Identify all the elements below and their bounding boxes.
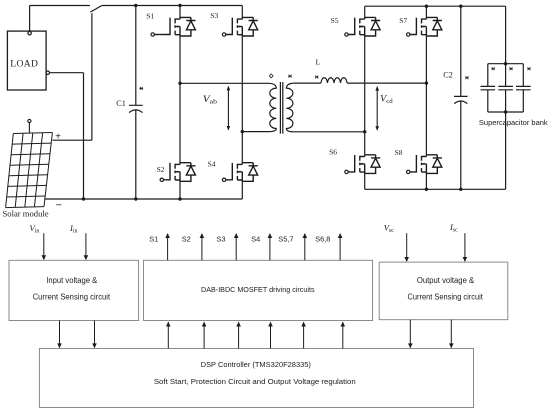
arrow gate S5,7 xyxy=(304,234,306,260)
polarity mark secondary xyxy=(288,75,292,78)
box DSP controller xyxy=(39,349,473,408)
polarity mark inductor xyxy=(315,76,319,79)
box Input sensing xyxy=(9,260,139,320)
transformer secondary winding xyxy=(286,83,293,132)
svg-text:Output voltage &: Output voltage & xyxy=(417,276,475,285)
junction S8 source bottom rail xyxy=(425,188,428,191)
node d junction xyxy=(363,130,366,133)
node a wire xyxy=(180,82,269,84)
junction C1 bottom rail xyxy=(134,197,137,200)
svg-text:Current Sensing circuit: Current Sensing circuit xyxy=(33,293,111,302)
arrow gate S1 xyxy=(167,234,169,260)
wire S1-S2 leg xyxy=(179,36,181,163)
transistor S5 drain wire xyxy=(364,6,366,17)
node b wire xyxy=(242,131,269,133)
arrow output sense to DSP 2 xyxy=(450,320,452,348)
polarity mark C1 xyxy=(139,87,143,90)
svg-text:Solar module: Solar module xyxy=(3,209,49,219)
transformer core xyxy=(280,82,282,134)
arrow DSP to driver 3 xyxy=(238,322,240,348)
svg-text:S2: S2 xyxy=(157,165,165,174)
solar module terminal xyxy=(28,119,31,133)
arrow gate S2 xyxy=(201,234,203,260)
svg-text:LOAD: LOAD xyxy=(10,60,38,70)
wire S4 source xyxy=(241,181,243,199)
junction load return bottom rail xyxy=(82,197,85,200)
Vab arrow xyxy=(227,86,231,131)
box Output sensing xyxy=(379,262,508,320)
LOAD box xyxy=(7,31,46,90)
box DAB-IBDC driving xyxy=(144,260,373,320)
svg-text:Supercapacitor bank: Supercapacitor bank xyxy=(479,118,548,127)
supercap bank top wire xyxy=(488,63,524,65)
node c junction xyxy=(425,81,428,84)
wire top rail to bridge xyxy=(102,5,243,7)
svg-text:DAB-IBDC MOSFET driving circui: DAB-IBDC MOSFET driving circuits xyxy=(201,285,315,294)
node b junction xyxy=(241,130,244,133)
arrow DSP to driver 6 xyxy=(342,322,344,348)
polarity mark supercap 3 xyxy=(527,67,531,70)
transistor S3 drain wire xyxy=(241,6,243,18)
svg-text:S5,7: S5,7 xyxy=(278,235,293,244)
transistor S3 xyxy=(222,17,257,36)
wire secondary top to inductor xyxy=(294,82,321,84)
node a junction xyxy=(178,82,181,85)
wire S2 source xyxy=(179,181,181,199)
arrow input sense to DSP 1 xyxy=(59,321,61,348)
transistor S2 xyxy=(160,163,195,182)
wire S7-S8 leg xyxy=(425,36,427,155)
wire S5-S6 leg xyxy=(364,36,366,155)
wire S8 source xyxy=(425,173,427,189)
svg-text:S8: S8 xyxy=(395,148,403,157)
bottom rail left bridge xyxy=(45,198,243,200)
svg-text:S6: S6 xyxy=(329,148,337,157)
svg-text:S1: S1 xyxy=(149,235,158,244)
arrow DSP to driver 4 xyxy=(270,322,272,348)
polarity mark supercap 1 xyxy=(491,67,495,70)
arrow input sense to DSP 2 xyxy=(94,321,96,348)
supercap cap 3 xyxy=(516,64,531,112)
transformer primary winding xyxy=(269,83,276,131)
svg-text:Soft Start, Protection Circuit: Soft Start, Protection Circuit and Outpu… xyxy=(154,377,356,386)
svg-text:S4: S4 xyxy=(251,235,260,244)
svg-text:S1: S1 xyxy=(146,11,154,20)
inductor L xyxy=(321,78,347,83)
arrow Vin into input box xyxy=(42,233,468,348)
arrow DSP to driver 5 xyxy=(303,322,305,348)
junction S1 drain rail xyxy=(178,4,181,7)
arrow gate S4 xyxy=(269,234,271,260)
svg-text:S6,8: S6,8 xyxy=(315,235,330,244)
arrow DSP to driver 2 xyxy=(203,322,205,348)
svg-text:–: – xyxy=(55,199,62,210)
supercap cap 1 xyxy=(481,64,496,112)
svg-text:C1: C1 xyxy=(116,99,126,108)
solar module panel xyxy=(6,133,53,208)
polarity mark C2 xyxy=(465,76,469,79)
junction supercap bank top xyxy=(504,62,507,65)
svg-text:S4: S4 xyxy=(208,160,216,169)
svg-text:DSP Controller (TMS320F28335): DSP Controller (TMS320F28335) xyxy=(201,360,311,369)
supercap right vertical xyxy=(505,6,507,189)
svg-text:S7: S7 xyxy=(399,16,407,25)
supercap cap 2 plates xyxy=(498,86,513,89)
wire inductor to node c xyxy=(347,82,426,84)
junction S7 drain rail xyxy=(425,5,428,8)
svg-text:S2: S2 xyxy=(182,235,191,244)
Vcd arrow xyxy=(375,86,379,131)
wire LOAD right to bottom rail xyxy=(50,73,84,199)
svg-text:L: L xyxy=(316,57,321,66)
junction C1 top rail xyxy=(134,4,137,7)
solar plus wire xyxy=(53,139,92,141)
wire top rail left of switch xyxy=(30,5,90,7)
wire S3-S4 leg xyxy=(241,36,243,163)
svg-text:S3: S3 xyxy=(210,11,218,20)
transistor S4 xyxy=(222,163,257,182)
junction supercap bank bottom xyxy=(504,110,507,113)
supercap bank bottom wire xyxy=(488,111,524,113)
svg-text:+: + xyxy=(55,131,61,142)
wire S6 source xyxy=(364,173,366,189)
transistor S7 xyxy=(407,17,442,36)
junction S2 source bottom rail xyxy=(178,197,181,200)
svg-text:Input voltage &: Input voltage & xyxy=(46,276,98,285)
bottom rail right bridge xyxy=(365,188,506,190)
arrow Vsc into output box xyxy=(406,233,408,261)
arrow DSP to driver 1 xyxy=(167,322,169,348)
capacitor C1 xyxy=(129,6,143,200)
transistor S5 xyxy=(345,17,380,36)
transistor S8 xyxy=(407,155,442,174)
LOAD top terminal xyxy=(28,32,31,35)
LOAD right terminal xyxy=(46,71,49,74)
arrow output sense to DSP 1 xyxy=(409,320,411,348)
wire LOAD top to rail xyxy=(29,6,31,32)
polarity mark supercap 2 xyxy=(509,67,513,70)
junction C2 bottom rail xyxy=(459,188,462,191)
arrow Isc into output box xyxy=(464,233,466,261)
svg-text:S3: S3 xyxy=(217,235,226,244)
wire switch pole down xyxy=(91,13,93,140)
top rail right bridge xyxy=(365,5,506,7)
junction C2 top rail xyxy=(459,5,462,8)
switch blade xyxy=(90,6,101,13)
transistor S6 xyxy=(345,155,380,174)
arrow gate S3 xyxy=(235,234,237,260)
transistor S7 drain wire xyxy=(425,6,427,17)
transistor S1 xyxy=(151,17,196,36)
svg-text:S5: S5 xyxy=(331,16,339,25)
svg-text:C2: C2 xyxy=(443,71,453,80)
wire secondary bottom to node d xyxy=(294,131,365,133)
arrow Iin into input box xyxy=(85,233,87,259)
capacitor C2 xyxy=(454,6,468,189)
svg-text:Current Sensing circuit: Current Sensing circuit xyxy=(408,293,484,302)
transistor S1 drain wire xyxy=(179,6,181,18)
arrow gate S6,8 xyxy=(339,234,341,260)
polarity mark primary diamond xyxy=(269,74,273,78)
